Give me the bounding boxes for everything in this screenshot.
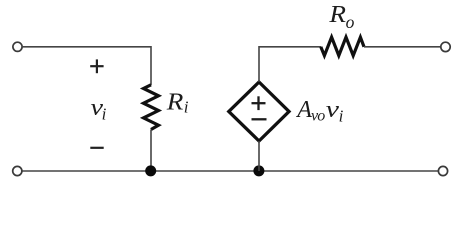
wire source bottom (258, 141, 260, 171)
wire top-left (22, 47, 151, 85)
wire Ri bottom (150, 130, 152, 172)
dependent source U1 (diamond) (229, 82, 289, 141)
label + (input polarity) (90, 59, 103, 73)
svg-text:o: o (346, 12, 355, 32)
label - (input polarity) (90, 147, 103, 149)
resistor R2 (Ro zigzag) (321, 37, 364, 55)
svg-text:i: i (184, 98, 189, 117)
svg-text:R: R (166, 90, 184, 116)
wire source top to Ro (259, 47, 321, 82)
svg-text:A: A (295, 97, 312, 123)
terminal TR (output top open circle) (441, 42, 450, 51)
wire Ro right (364, 46, 441, 48)
node junction dot left (145, 165, 156, 176)
svg-text:i: i (339, 107, 344, 126)
terminal BR (output bottom open circle) (438, 166, 447, 175)
plus sign inside source (252, 96, 266, 110)
svg-text:i: i (102, 105, 107, 124)
svg-text:v: v (326, 97, 340, 123)
resistor R1 (Ri zigzag) (144, 85, 159, 130)
svg-text:R: R (328, 2, 346, 28)
minus sign inside source (252, 118, 267, 120)
terminal BL (input bottom open circle) (13, 166, 22, 175)
terminal TL (input top open circle) (13, 42, 22, 51)
bottom rail wire (22, 170, 438, 172)
node junction dot right (253, 165, 264, 176)
svg-text:vo: vo (311, 108, 325, 125)
